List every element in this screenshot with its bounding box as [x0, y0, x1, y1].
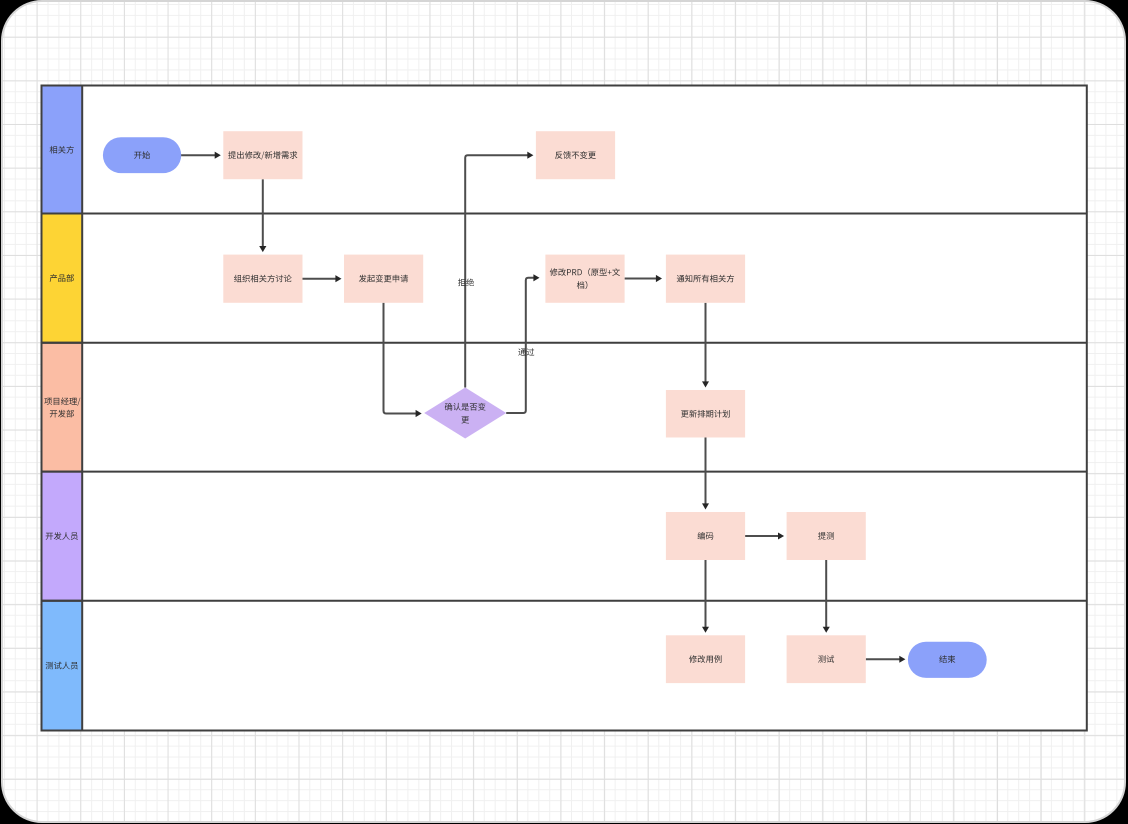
lane label 项目经理/开发部 line2	[50, 410, 74, 418]
wire: 更新排期计划 -> 编码	[705, 438, 707, 505]
decision diamond 确认是否变更	[424, 388, 506, 439]
wire: 提测 -> 测试	[825, 560, 827, 628]
wire: 发起变更申请 -> 确认是否变更 (elbow)	[384, 303, 417, 414]
start node 开始	[103, 137, 181, 173]
process box 提测	[787, 512, 866, 560]
lane label 开发人员	[46, 532, 78, 540]
label 更新排期计划	[681, 410, 730, 418]
wire: 确认是否变更 -> 修改PRD (通过 branch, elbow up-right)	[506, 278, 534, 413]
label 反馈不变更	[555, 151, 596, 159]
wire: 开始 -> 提出修改/新增需求	[181, 154, 216, 156]
lane header 相关方	[42, 86, 83, 214]
label 修改用例	[689, 655, 721, 663]
process box 提出修改/新增需求	[223, 131, 302, 179]
label 修改PRD（原型+文 line1	[550, 268, 620, 276]
label 结束	[939, 655, 955, 663]
lane header 开发人员	[42, 472, 83, 601]
label 开始	[134, 151, 150, 159]
label 提测	[818, 532, 834, 540]
lane label 相关方	[50, 146, 74, 154]
process box 发起变更申请	[344, 255, 423, 303]
wire: 组织相关方讨论 -> 发起变更申请	[303, 278, 337, 280]
label 组织相关方讨论	[234, 275, 292, 283]
lane header 测试人员	[42, 601, 83, 731]
lane header 产品部	[42, 214, 83, 343]
process box 组织相关方讨论	[223, 255, 302, 303]
wire: 提出修改/新增需求 -> 组织相关方讨论	[262, 179, 264, 247]
label 编码	[698, 532, 714, 540]
edge label 拒绝	[458, 278, 474, 286]
process box 修改用例	[666, 635, 745, 683]
wire: 编码 -> 提测	[745, 535, 779, 537]
label 档） line2	[577, 281, 588, 289]
process box 反馈不变更	[536, 131, 615, 179]
label 确认是否变 line1	[445, 403, 486, 411]
wire: 测试 -> 结束	[866, 658, 901, 660]
lane divider lines	[42, 213, 1087, 215]
label 提出修改/新增需求	[228, 151, 297, 160]
label 测试	[818, 655, 834, 663]
wire: 修改PRD -> 通知所有相关方	[625, 278, 657, 280]
label 更 line2	[461, 416, 469, 423]
end node 结束	[908, 642, 987, 678]
label 通知所有相关方	[677, 275, 734, 283]
wire: 通知所有相关方 -> 更新排期计划	[705, 303, 707, 383]
wire: 编码 -> 修改用例	[705, 560, 707, 628]
wire: 确认是否变更 -> 反馈不变更 (拒绝 branch, elbow up)	[465, 155, 528, 387]
label 发起变更申请	[359, 275, 408, 283]
process box 通知所有相关方	[666, 255, 745, 303]
lane label 测试人员	[46, 662, 78, 670]
lane header 项目经理/开发部	[42, 343, 83, 472]
process box 修改PRD（原型+文档）	[545, 255, 624, 303]
lane label 项目经理/开发部 line1	[44, 397, 80, 406]
process box 编码	[666, 512, 745, 560]
lane label 产品部	[50, 274, 74, 282]
swimlane table body	[42, 86, 1087, 731]
edge label 通过	[518, 348, 534, 356]
process box 更新排期计划	[666, 390, 745, 438]
process box 测试	[787, 635, 866, 683]
